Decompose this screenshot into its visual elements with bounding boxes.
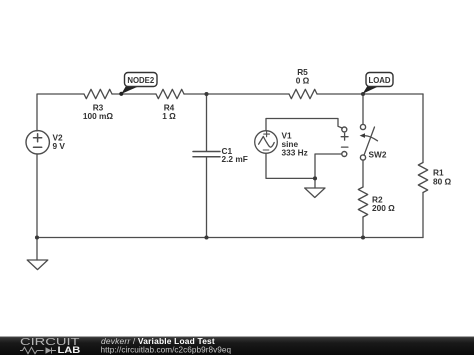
wire bottom <box>37 237 423 239</box>
capacitor C1 <box>193 151 220 153</box>
svg-text:SW2: SW2 <box>369 150 387 160</box>
junction node C1 top <box>204 92 208 96</box>
ground near V1 <box>314 178 316 188</box>
node flag LOAD <box>363 73 393 94</box>
CircuitLab logo circuit glyph <box>20 347 56 353</box>
junction node LOAD <box>361 92 365 96</box>
svg-text:LOAD: LOAD <box>368 76 390 85</box>
wire C1 top branch <box>206 94 208 151</box>
resistor R1 <box>418 163 427 193</box>
wire R3 to R4 <box>112 93 156 95</box>
resistor R4 <box>156 89 184 98</box>
svg-text:333 Hz: 333 Hz <box>282 148 308 158</box>
arrow head of switch SW2 <box>360 133 365 138</box>
wire right side lower <box>422 193 424 238</box>
wire control minus to ground node <box>315 154 342 178</box>
svg-text:200 Ω: 200 Ω <box>372 203 395 213</box>
svg-text:80 Ω: 80 Ω <box>433 177 452 187</box>
junction node R2 bottom <box>361 235 365 239</box>
resistor R5 <box>289 89 317 98</box>
wire right side upper <box>422 94 424 163</box>
svg-text:1 Ω: 1 Ω <box>162 111 176 121</box>
junction node V1 ground <box>313 176 317 180</box>
wire C1 bottom branch <box>206 157 208 237</box>
junction node bottom left <box>35 235 39 239</box>
svg-text:LAB: LAB <box>58 344 81 355</box>
svg-text:9 V: 9 V <box>53 141 66 151</box>
svg-text:http://circuitlab.com/c2c6pb9r: http://circuitlab.com/c2c6pb9r8v9eq <box>101 345 232 354</box>
wire V1 top to switch control plus <box>266 119 342 131</box>
voltage source V1 <box>255 131 278 154</box>
wire top left <box>37 94 84 131</box>
junction node C1 bottom <box>204 235 208 239</box>
svg-text:0 Ω: 0 Ω <box>296 76 310 86</box>
svg-text:100 mΩ: 100 mΩ <box>83 111 114 121</box>
resistor R2 <box>358 187 367 217</box>
ground left <box>36 238 38 261</box>
svg-text:2.2 mF: 2.2 mF <box>222 154 248 164</box>
wire left side lower <box>36 154 38 238</box>
resistor R3 <box>84 89 112 98</box>
wire R5 to top right corner <box>317 93 423 95</box>
wire V1 bottom <box>266 153 315 178</box>
switch SW2 <box>362 94 364 124</box>
wire switch to R2 <box>362 160 364 187</box>
svg-text:NODE2: NODE2 <box>127 76 155 85</box>
wire R4 to R5 <box>184 93 289 95</box>
voltage source V2 <box>26 131 49 154</box>
footer bar <box>0 337 474 355</box>
wire R2 to bottom <box>362 217 364 238</box>
switch SW2 control terminals <box>342 127 347 132</box>
node flag NODE2 <box>119 73 157 96</box>
